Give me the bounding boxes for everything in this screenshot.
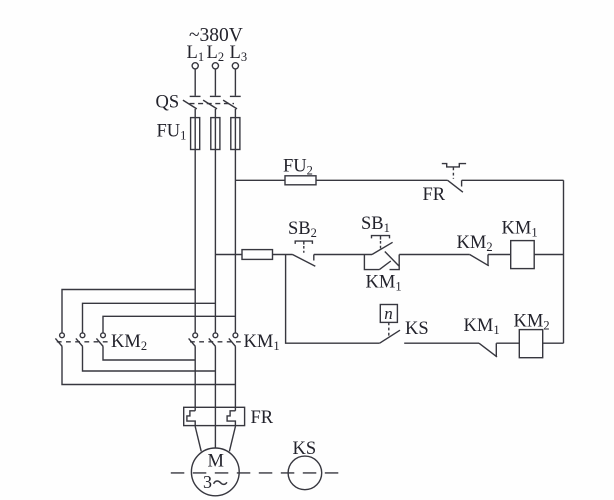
wire KM2 coil to rail <box>543 342 564 344</box>
terminal L3 circle <box>232 63 238 69</box>
svg-text:FR: FR <box>251 408 274 428</box>
contactor KM1 main pole 3 <box>229 333 238 347</box>
svg-text:SB2: SB2 <box>288 219 317 240</box>
thermal relay FR heater box <box>184 407 245 425</box>
fuse FU2b element <box>242 250 273 260</box>
contactor KM2 pole 1 branch bottom crossover <box>62 347 235 385</box>
wire L1 to QS <box>194 69 196 96</box>
svg-text:KM2: KM2 <box>457 233 493 254</box>
svg-text:KM2: KM2 <box>111 332 147 353</box>
label ~380V <box>189 25 243 46</box>
switch QS label <box>156 93 180 113</box>
wire KM2 NC to KM1 coil <box>488 254 511 256</box>
svg-text:FR: FR <box>423 185 446 205</box>
speed relay shaft dashed line <box>171 472 341 474</box>
contactor KM1 main label <box>244 332 280 353</box>
wire KM1 coil to rail <box>534 254 563 256</box>
fuse FU1 element c <box>231 118 240 150</box>
wire phase1 QS to KM1 pole <box>194 109 196 333</box>
thermal relay FR heater label <box>251 408 274 428</box>
thermal relay FR actuator dashed <box>452 168 454 179</box>
fuse FU2 element <box>285 176 316 185</box>
button SB2 actuator stem dashed <box>303 241 305 245</box>
right rail wire <box>563 180 565 343</box>
wire FU2 to FR contact <box>316 179 448 181</box>
speed relay KS label <box>293 439 317 459</box>
svg-text:FU1: FU1 <box>157 121 187 142</box>
button SB2 actuator cap <box>295 241 312 244</box>
speed relay actuator dashed <box>388 322 390 337</box>
contactor KM2 pole 2 branch bottom <box>83 347 216 372</box>
button SB1 NO contact blade <box>372 242 393 254</box>
svg-text:KM1: KM1 <box>244 332 280 353</box>
svg-text:KS: KS <box>293 439 317 459</box>
terminal L2 label <box>207 43 225 64</box>
svg-text:FU2: FU2 <box>283 157 313 178</box>
svg-text:L3: L3 <box>230 43 248 64</box>
terminal L1 circle <box>192 63 198 69</box>
contactor KM2 pole 3 branch bottom crossover <box>103 347 195 361</box>
fuse FU1 element b <box>211 118 220 150</box>
motor M label <box>208 451 224 471</box>
wire L2 to QS <box>214 69 216 96</box>
contactor KM2 pole 2 branch top <box>83 303 216 333</box>
thermal relay FR heater element phase3 <box>227 411 235 427</box>
coil KM2 label <box>514 312 550 333</box>
thermal relay FR trip symbol <box>442 164 466 167</box>
contactor KM2 pole 3 branch top <box>103 316 235 333</box>
wire FR to motor lead 1 <box>195 427 201 452</box>
svg-text:SB1: SB1 <box>361 214 390 235</box>
contactor KM2 main label <box>111 332 147 353</box>
wire phase3 below KM1 to FR <box>234 347 236 411</box>
contactor KM1 main pole 2 <box>209 333 218 347</box>
wire FR to motor lead 3 <box>229 427 235 452</box>
switch QS pole 1 <box>183 96 201 109</box>
svg-text:QS: QS <box>156 93 180 113</box>
wire phase1 below KM1 to FR <box>194 347 196 411</box>
wire phase2 to control rung 2 <box>215 254 242 256</box>
contactor KM1 aux latch label <box>366 273 402 294</box>
contactor KM2 main pole 1 <box>55 333 64 347</box>
fuse FU1 element a <box>191 118 200 150</box>
svg-text:M: M <box>208 451 224 471</box>
svg-text:KM1: KM1 <box>464 316 500 337</box>
svg-text:3: 3 <box>203 472 212 492</box>
wire L3 to QS <box>234 69 236 96</box>
contactor KM2 main linkage dashed <box>57 341 110 343</box>
motor M circle <box>191 448 239 496</box>
speed relay KS NO contact blade <box>380 330 400 343</box>
svg-text:KM1: KM1 <box>502 219 538 240</box>
speed relay KS circle <box>288 456 322 490</box>
svg-text:n: n <box>384 304 393 323</box>
contactor KM2 NC interlock label <box>457 233 493 254</box>
thermal relay FR NC contact <box>448 180 463 192</box>
terminal L2 circle <box>212 63 218 69</box>
button SB1 actuator cap <box>372 236 390 239</box>
svg-text:KS: KS <box>405 319 429 339</box>
wire phase3 to control rung 1 <box>235 179 285 181</box>
fuse FU1 label <box>157 121 187 142</box>
motor 3~ label <box>203 472 227 492</box>
svg-text:KM1: KM1 <box>366 273 402 294</box>
contactor KM1 NC interlock label <box>464 316 500 337</box>
coil KM2 <box>519 330 542 358</box>
switch QS pole 3 <box>223 96 241 109</box>
wire phase2 QS to KM1 pole <box>214 109 216 333</box>
speed relay n label <box>384 304 393 323</box>
wire SB2 to SB1 <box>314 254 372 256</box>
button SB2 label <box>288 219 317 240</box>
terminal L1 label <box>187 43 205 64</box>
button SB1 label <box>361 214 390 235</box>
switch QS linkage dashed <box>190 103 235 105</box>
button SB1 actuator stem dashed <box>380 236 382 240</box>
coil KM1 <box>511 241 535 269</box>
contactor KM2 NC interlock contact <box>470 255 489 266</box>
wire KM1 NC to KM2 coil <box>496 342 519 344</box>
switch QS pole 2 <box>203 96 221 109</box>
contactor KM1 main pole 1 <box>189 333 198 347</box>
contactor KM1 NC interlock contact <box>479 343 497 357</box>
speed relay KS contact label <box>405 319 429 339</box>
wire KS to KM1 NC <box>404 342 479 344</box>
wire FR contact to right rail <box>462 179 564 181</box>
contactor KM2 pole 1 branch top <box>62 290 195 334</box>
svg-text:L2: L2 <box>207 43 225 64</box>
terminal L3 label <box>230 43 248 64</box>
thermal relay FR heater element phase1 <box>187 411 195 427</box>
button SB2 NC contact <box>293 255 316 267</box>
wire SB1 to KM2 NC <box>399 254 470 256</box>
wire branch to rung 3 <box>286 255 380 344</box>
wire phase3 QS to KM1 pole <box>234 109 236 333</box>
coil KM1 label <box>502 219 538 240</box>
contactor KM1 main linkage dashed <box>190 341 243 343</box>
fuse FU2 label <box>283 157 313 178</box>
thermal relay FR contact label <box>423 185 446 205</box>
contactor KM2 main pole 3 <box>96 333 105 347</box>
wire fuse to SB2 <box>273 254 293 256</box>
svg-text:L1: L1 <box>187 43 205 64</box>
contactor KM2 main pole 2 <box>76 333 85 347</box>
contactor KM1 aux latch branch <box>364 252 399 270</box>
wire phase2 below KM1 through FR to motor <box>214 347 216 449</box>
speed relay n box <box>380 305 397 323</box>
